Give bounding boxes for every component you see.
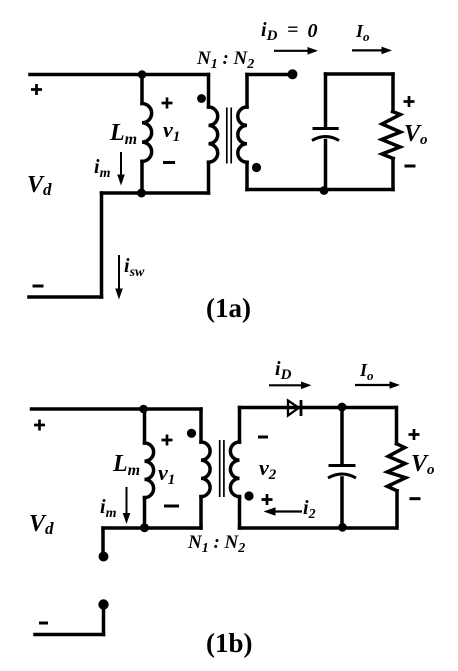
resistor branch vertical bottom (1b) <box>395 491 399 528</box>
diode D (1b) <box>288 401 299 416</box>
svg-text:(1a): (1a) <box>206 293 251 323</box>
minus Vd (1b) <box>39 622 48 625</box>
wire Lm branch vertical bottom (1b) <box>143 498 147 528</box>
resistor branch vertical top <box>391 74 395 112</box>
wire secondary bottom horizontal (1b) <box>240 526 397 530</box>
capacitor C plates (1a) <box>312 129 356 479</box>
transformer T1 primary winding <box>207 75 211 108</box>
junction + polarity dots <box>98 69 347 609</box>
wire top-left horizontal (Vd+ to primary top) <box>30 73 209 77</box>
svg-text:=: = <box>287 19 298 41</box>
plus v1 (1a) <box>162 98 173 109</box>
minus v1 (1a) <box>163 161 175 164</box>
resistor branch vertical bottom <box>391 159 395 190</box>
transformer T2 core (1b) <box>219 440 221 497</box>
transformer T2 secondary winding (1b) <box>238 408 242 443</box>
wire primary bottom horizontal <box>102 191 209 195</box>
minus v1 (1b) <box>164 505 179 508</box>
node: capacitor bottom junction (1a) <box>320 186 329 195</box>
capacitor C branch vertical top <box>324 74 328 127</box>
plus Vd (1b) <box>34 420 45 431</box>
capacitor C plates (1b) <box>329 464 356 467</box>
polarity dot secondary (1b) <box>244 491 253 500</box>
resistor R load zigzag <box>382 112 401 159</box>
wire secondary top through diode (1b) <box>240 406 397 410</box>
wire Lm branch vertical top (1b) <box>143 409 147 443</box>
node: top junction (1a) <box>138 70 147 79</box>
plus Vo (1a) <box>404 96 415 107</box>
wire primary bottom horizontal (1b) <box>103 526 201 530</box>
node: diode cathode junction (1b) <box>338 403 347 412</box>
transformer T1 core <box>220 108 232 498</box>
inductor Lm <box>142 104 152 162</box>
diode D cathode bar (1b) <box>300 400 303 416</box>
capacitor C branch vertical bottom (1b) <box>340 478 344 528</box>
plus / minus signs <box>31 84 420 505</box>
polarity dot secondary (1a) <box>252 163 261 172</box>
arrow i2 (1b) pointing left <box>274 510 302 512</box>
switch open contact dot lower (1b) <box>98 599 108 609</box>
polarity dot primary (1a) <box>197 94 206 103</box>
wire switch step vertical <box>100 193 104 297</box>
arrow im (1a) <box>120 152 122 177</box>
svg-text:N1 : N2: N1 : N2 <box>187 532 245 556</box>
plus v2 (1b) <box>262 494 273 505</box>
wire bottom-left horizontal (to Vd-) <box>29 295 102 299</box>
plus Vd (1a) <box>31 84 42 95</box>
open node dot at diode (1a) <box>288 69 298 79</box>
node: capacitor bottom junction (1b) <box>338 523 347 532</box>
plus v1 (1b) <box>162 435 173 446</box>
wire Lm branch vertical bottom <box>140 161 144 193</box>
wire secondary top (to open diode node) <box>247 73 290 77</box>
minus v2 (1b) <box>258 436 268 439</box>
wire output loop top <box>326 72 394 76</box>
wire switch stub upper (1b) <box>101 528 105 553</box>
node: top junction (1b) <box>139 405 148 414</box>
current arrows <box>115 47 400 524</box>
transformer T1 secondary winding <box>245 75 249 108</box>
svg-text:0: 0 <box>308 20 318 42</box>
arrow Io (1a) <box>352 49 383 51</box>
polarity dot primary (1b) <box>187 429 196 438</box>
minus Vo (1a) <box>405 165 416 168</box>
wire switch stub lower (1b) <box>102 607 106 635</box>
node: bottom junction (1a) <box>137 189 146 198</box>
minus Vd (1a) <box>33 285 44 288</box>
inductor Lm (1b) <box>145 443 154 498</box>
arrow im (1b) <box>126 487 128 515</box>
plus Vo (1b) <box>409 429 420 440</box>
minus Vo (1b) <box>410 497 421 500</box>
arrow isw (1a) <box>118 255 120 290</box>
arrow Io (1b) <box>355 384 391 386</box>
arrow iD=0 (1a) <box>274 50 309 52</box>
node: bottom junction (1b) <box>140 523 149 532</box>
capacitor C branch vertical bottom <box>324 141 328 190</box>
resistor R load zigzag (1b) <box>387 444 405 491</box>
capacitor C branch vertical top (1b) <box>340 408 344 465</box>
wire Lm branch vertical top <box>140 75 144 104</box>
arrow iD (1b) <box>269 384 302 386</box>
resistor branch vertical top (1b) <box>395 408 399 444</box>
svg-text:(1b): (1b) <box>206 628 253 658</box>
wire bottom-left horizontal (1b) <box>35 633 104 637</box>
switch open contact dot upper (1b) <box>99 552 109 562</box>
transformer T2 primary winding (1b) <box>199 409 203 442</box>
wire top-left horizontal (1b) <box>32 407 202 411</box>
wire secondary bottom horizontal <box>247 188 393 192</box>
svg-text:N1 : N2: N1 : N2 <box>196 48 254 72</box>
